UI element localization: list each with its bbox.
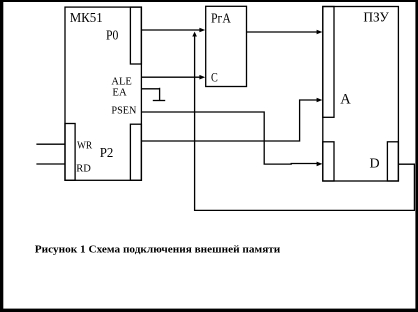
svg-text:ПЗУ: ПЗУ: [363, 11, 389, 26]
svg-text:ALE: ALE: [111, 76, 131, 87]
svg-text:РгА: РгА: [211, 11, 232, 26]
svg-text:P0: P0: [106, 29, 118, 44]
svg-text:RD: RD: [76, 163, 91, 174]
svg-text:D: D: [370, 157, 380, 172]
svg-text:WR: WR: [77, 140, 92, 151]
svg-text:С: С: [211, 70, 218, 85]
svg-text:PSEN: PSEN: [111, 106, 136, 117]
svg-text:EA: EA: [112, 88, 127, 99]
svg-text:Рисунок 1 Схема подключения вн: Рисунок 1 Схема подключения внешней памя…: [35, 245, 280, 256]
svg-text:P2: P2: [100, 146, 114, 161]
svg-text:МК51: МК51: [70, 11, 103, 26]
svg-text:А: А: [340, 92, 351, 108]
